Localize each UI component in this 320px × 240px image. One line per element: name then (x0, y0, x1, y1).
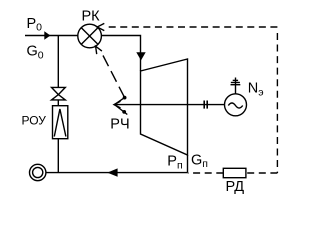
control line RD to turbine exhaust (dashed) (188, 172, 224, 174)
control link RCh to PK (dashed) (103, 56, 125, 98)
wire turbine exhaust (187, 155, 189, 173)
control line from PK sensing (dashed, top) (106, 26, 277, 28)
generator (225, 94, 247, 116)
svg-text:РОУ: РОУ (22, 114, 47, 128)
svg-text:РД: РД (226, 179, 245, 195)
wire branch to ROU (57, 36, 59, 88)
pressure regulator RD (223, 168, 246, 177)
svg-text:Nэ: Nэ (248, 81, 264, 99)
control line bottom right (dashed) (246, 172, 278, 174)
wire PK to turbine inlet (101, 36, 140, 72)
svg-text:G0: G0 (27, 44, 44, 62)
arrowhead at PK (top dashed) (97, 23, 104, 30)
wire main steam line P0 (25, 35, 78, 37)
control line right side (dashed vertical) (276, 33, 278, 173)
coupling (204, 101, 207, 109)
speed governor RCh (114, 96, 127, 115)
wire valve to ROU (57, 100, 59, 106)
condenser (double circle) (30, 164, 46, 180)
turbine (141, 59, 188, 155)
svg-text:Gп: Gп (191, 152, 208, 170)
valve PK (circle with X) (78, 24, 102, 48)
svg-text:P0: P0 (27, 16, 43, 34)
grid connection symbol (231, 78, 241, 94)
wire shaft (114, 104, 225, 106)
wire bottom exhaust line (46, 172, 188, 174)
ROU unit (53, 106, 68, 139)
svg-text:РК: РК (82, 9, 101, 25)
flow arrow into turbine (136, 52, 145, 60)
flow arrow on main steam line (44, 31, 50, 39)
shutoff valve above ROU (52, 87, 66, 100)
arrowhead at PK (from RCh) (96, 46, 102, 54)
wire ROU to exhaust line (57, 139, 59, 173)
flow arrow on exhaust line (107, 168, 117, 176)
svg-text:Pп: Pп (167, 154, 182, 172)
svg-text:РЧ: РЧ (110, 117, 129, 133)
